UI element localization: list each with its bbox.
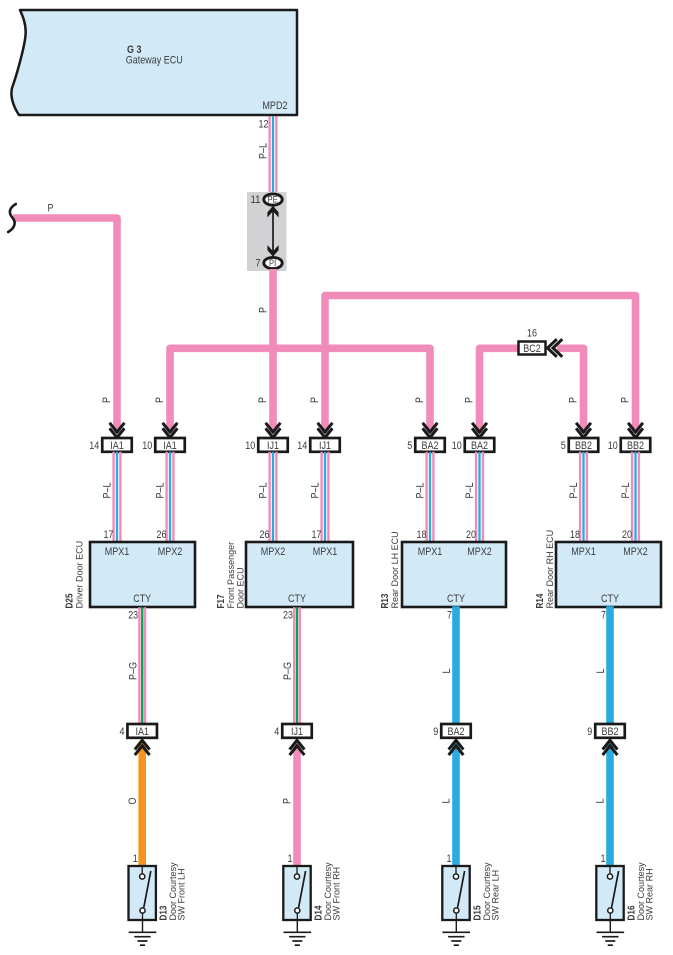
connector BB2 pin 10 bbox=[621, 438, 651, 452]
wire P-G from D25 CTY to IA1 pin 4 bbox=[139, 607, 145, 724]
svg-text:MPX1: MPX1 bbox=[418, 546, 443, 558]
svg-text:SW Front LH: SW Front LH bbox=[177, 868, 187, 920]
svg-text:P–L: P–L bbox=[620, 483, 632, 499]
svg-text:7: 7 bbox=[256, 258, 261, 270]
svg-text:P: P bbox=[282, 798, 294, 804]
svg-text:Door ECU: Door ECU bbox=[236, 567, 246, 608]
svg-text:L: L bbox=[441, 799, 453, 804]
svg-text:PE: PE bbox=[268, 195, 278, 205]
connector BA2 pin 5 bbox=[415, 438, 445, 452]
svg-text:P–L: P–L bbox=[101, 483, 113, 499]
wire L from BA2 to switch bbox=[452, 742, 460, 866]
svg-text:5: 5 bbox=[407, 440, 412, 452]
connector IA1 pin 4 bbox=[127, 724, 157, 738]
svg-text:26: 26 bbox=[157, 529, 167, 541]
wire P-L below connector IJ1 10 bbox=[270, 452, 277, 542]
svg-text:BA2: BA2 bbox=[422, 440, 439, 452]
svg-text:P–L: P–L bbox=[154, 483, 166, 499]
connector IJ1 pin 14 (chevron) bbox=[318, 423, 333, 432]
connector BB2 pin 10 (chevron) bbox=[628, 423, 643, 432]
connector IJ1 pin 10 (chevron) bbox=[266, 423, 281, 432]
svg-text:9: 9 bbox=[433, 726, 438, 738]
connector IA1 pin 10 (chevron) bbox=[163, 423, 178, 432]
connector BA2 pin 9 bbox=[441, 724, 471, 738]
connector IJ1 chevron bbox=[290, 740, 305, 749]
wire P-L below connector BA2 5 bbox=[427, 452, 434, 542]
svg-text:20: 20 bbox=[622, 529, 632, 541]
connector IA1 pin 10 bbox=[155, 438, 185, 452]
svg-text:14: 14 bbox=[297, 440, 307, 452]
svg-text:P–L: P–L bbox=[309, 483, 321, 499]
wire P upper trunk: IJ1 pin14 to BB2 pin10 bbox=[325, 296, 636, 434]
svg-text:BB2: BB2 bbox=[627, 440, 644, 452]
svg-text:20: 20 bbox=[466, 529, 476, 541]
svg-text:P: P bbox=[257, 397, 269, 403]
wire P-L below connector IA1 10 bbox=[167, 452, 174, 542]
svg-text:MPX2: MPX2 bbox=[467, 546, 492, 558]
switch D16 Door Courtesy SW Rear RH bbox=[596, 866, 623, 920]
svg-text:P–L: P–L bbox=[257, 483, 269, 499]
svg-text:BB2: BB2 bbox=[575, 440, 592, 452]
svg-text:1: 1 bbox=[601, 853, 606, 865]
connector BA2 chevron bbox=[449, 740, 464, 749]
ECU F17 Front Passenger Door ECU bbox=[246, 529, 353, 622]
svg-text:L: L bbox=[595, 669, 607, 674]
wire P lower trunk: IA1 pin10 to BA2 pin5 bbox=[170, 348, 430, 433]
svg-text:MPD2: MPD2 bbox=[262, 100, 287, 112]
connector BA2 pin 10 (chevron) bbox=[472, 423, 487, 432]
wire P-L below connector BA2 10 bbox=[476, 452, 483, 542]
svg-text:P–L: P–L bbox=[414, 483, 426, 499]
switch D13 Door Courtesy SW Front LH bbox=[129, 866, 156, 920]
connector BB2 pin 5 bbox=[569, 438, 599, 452]
svg-text:23: 23 bbox=[128, 610, 138, 622]
svg-text:P: P bbox=[258, 307, 270, 313]
svg-text:P–L: P–L bbox=[464, 483, 476, 499]
svg-text:Rear Door RH ECU: Rear Door RH ECU bbox=[545, 530, 555, 609]
connector BB2 pin 5 (chevron) bbox=[576, 423, 591, 432]
svg-text:7: 7 bbox=[447, 610, 452, 622]
svg-text:MPX2: MPX2 bbox=[261, 546, 286, 558]
connector IJ1 pin 14 bbox=[310, 438, 340, 452]
svg-text:P: P bbox=[414, 397, 426, 403]
wire P-L below connector IA1 14 bbox=[114, 452, 121, 542]
svg-text:SW Rear LH: SW Rear LH bbox=[491, 870, 501, 921]
svg-text:Front Passenger: Front Passenger bbox=[226, 542, 236, 609]
svg-text:P: P bbox=[309, 397, 321, 403]
svg-text:BA2: BA2 bbox=[471, 440, 488, 452]
svg-text:10: 10 bbox=[608, 440, 618, 452]
wire P from PI down to connector IJ1 pin 10 bbox=[269, 269, 277, 433]
svg-text:23: 23 bbox=[283, 610, 293, 622]
svg-text:10: 10 bbox=[142, 440, 152, 452]
svg-text:26: 26 bbox=[260, 529, 270, 541]
svg-text:P–L: P–L bbox=[258, 143, 270, 159]
svg-text:1: 1 bbox=[133, 853, 138, 865]
svg-text:1: 1 bbox=[447, 853, 452, 865]
chevron into BC2 bbox=[548, 339, 557, 357]
wire P from left edge to connector IA1 pin 14 bbox=[13, 218, 117, 433]
connector BA2 pin 5 (chevron) bbox=[423, 423, 438, 432]
svg-text:IJ1: IJ1 bbox=[267, 440, 279, 452]
svg-text:18: 18 bbox=[570, 529, 580, 541]
wire P-L from G3 pin 12 to PE bbox=[270, 117, 277, 193]
svg-text:CTY: CTY bbox=[447, 593, 466, 605]
svg-text:P: P bbox=[154, 397, 166, 403]
svg-text:17: 17 bbox=[104, 529, 114, 541]
svg-text:P–G: P–G bbox=[127, 662, 139, 680]
svg-text:P–L: P–L bbox=[568, 483, 580, 499]
svg-text:IA1: IA1 bbox=[110, 440, 124, 452]
wire P-L below connector BB2 5 bbox=[580, 452, 587, 542]
continuation squiggle bbox=[8, 204, 16, 232]
connector BA2 pin 10 bbox=[465, 438, 495, 452]
svg-text:7: 7 bbox=[601, 610, 606, 622]
svg-text:4: 4 bbox=[119, 726, 124, 738]
svg-text:11: 11 bbox=[251, 194, 261, 206]
connector IA1 chevron bbox=[135, 740, 150, 749]
wire O from IA1 to switch bbox=[138, 742, 146, 866]
wire P from IJ1 to switch bbox=[293, 742, 301, 866]
svg-text:IJ1: IJ1 bbox=[319, 440, 331, 452]
ECU R14 Rear Door RH ECU bbox=[556, 529, 661, 622]
svg-text:O: O bbox=[127, 797, 139, 804]
svg-text:SW Front RH: SW Front RH bbox=[332, 867, 342, 921]
svg-text:BA2: BA2 bbox=[448, 726, 465, 738]
ground bbox=[129, 920, 157, 945]
connector IA1 pin 14 bbox=[102, 438, 132, 452]
svg-text:L: L bbox=[441, 669, 453, 674]
svg-text:1: 1 bbox=[288, 853, 293, 865]
connector BB2 chevron bbox=[603, 740, 618, 749]
svg-text:MPX2: MPX2 bbox=[158, 546, 183, 558]
wire L from R14 CTY to BB2 pin 9 bbox=[606, 606, 614, 724]
svg-text:SW Rear RH: SW Rear RH bbox=[645, 868, 655, 920]
svg-text:5: 5 bbox=[561, 440, 566, 452]
svg-text:Gateway ECU: Gateway ECU bbox=[126, 55, 183, 67]
svg-text:4: 4 bbox=[274, 726, 279, 738]
ground bbox=[597, 920, 625, 945]
ECU G3 Gateway ECU bbox=[11, 10, 297, 115]
svg-text:16: 16 bbox=[527, 328, 537, 340]
connector PE pin 11 bbox=[251, 194, 283, 206]
svg-text:Rear Door LH ECU: Rear Door LH ECU bbox=[390, 531, 400, 608]
connector IJ1 pin 4 bbox=[282, 724, 312, 738]
svg-text:IJ1: IJ1 bbox=[291, 726, 303, 738]
svg-text:18: 18 bbox=[417, 529, 427, 541]
svg-text:P: P bbox=[464, 397, 476, 403]
svg-text:CTY: CTY bbox=[133, 593, 152, 605]
svg-text:14: 14 bbox=[89, 440, 99, 452]
svg-text:10: 10 bbox=[452, 440, 462, 452]
svg-text:PI: PI bbox=[269, 258, 276, 268]
svg-text:17: 17 bbox=[312, 529, 322, 541]
svg-text:MPX1: MPX1 bbox=[313, 546, 338, 558]
wire P from BC2 to BB2 pin5 bbox=[557, 348, 584, 433]
wire P-L below connector IJ1 14 bbox=[322, 452, 329, 542]
svg-text:MPX2: MPX2 bbox=[623, 546, 648, 558]
svg-text:IA1: IA1 bbox=[135, 726, 149, 738]
ground bbox=[284, 920, 312, 945]
switch D15 Door Courtesy SW Rear LH bbox=[442, 866, 469, 920]
svg-text:P–G: P–G bbox=[282, 662, 294, 680]
svg-text:10: 10 bbox=[245, 440, 255, 452]
wire P-L below connector BB2 10 bbox=[632, 452, 639, 542]
svg-text:BC2: BC2 bbox=[523, 343, 541, 355]
svg-text:BB2: BB2 bbox=[602, 726, 619, 738]
svg-text:CTY: CTY bbox=[288, 593, 307, 605]
svg-text:MPX1: MPX1 bbox=[105, 546, 130, 558]
svg-text:12: 12 bbox=[259, 118, 269, 130]
svg-text:P: P bbox=[568, 397, 580, 403]
svg-text:P: P bbox=[101, 397, 113, 403]
ground bbox=[443, 920, 471, 945]
svg-text:P: P bbox=[48, 203, 54, 215]
wire L from BB2 to switch bbox=[606, 742, 614, 866]
svg-text:L: L bbox=[595, 799, 607, 804]
svg-text:P: P bbox=[620, 397, 632, 403]
ECU D25 Driver Door ECU bbox=[90, 529, 195, 622]
connector IJ1 pin 10 bbox=[258, 438, 288, 452]
connector IA1 pin 14 (chevron) bbox=[110, 423, 125, 432]
switch D14 Door Courtesy SW Front RH bbox=[283, 866, 310, 920]
connector PI pin 7 bbox=[256, 257, 283, 269]
connector pair PE/PI (gray block) bbox=[247, 192, 287, 271]
connector BB2 pin 9 bbox=[595, 724, 625, 738]
double arrow between PE and PI bbox=[267, 206, 278, 257]
in-line connector BC2 pin 16 bbox=[519, 328, 546, 355]
svg-text:Driver Door ECU: Driver Door ECU bbox=[74, 541, 84, 609]
wire L from R13 CTY to BA2 pin 9 bbox=[452, 606, 460, 724]
ECU R13 Rear Door LH ECU bbox=[402, 529, 506, 622]
svg-text:MPX1: MPX1 bbox=[571, 546, 596, 558]
svg-text:IA1: IA1 bbox=[163, 440, 177, 452]
svg-text:CTY: CTY bbox=[601, 593, 620, 605]
wire P-G from F17 CTY to IJ1 pin 4 bbox=[294, 607, 300, 724]
svg-text:9: 9 bbox=[587, 726, 592, 738]
wire P from BA2 pin10 to in-line connector BC2 bbox=[480, 348, 519, 433]
